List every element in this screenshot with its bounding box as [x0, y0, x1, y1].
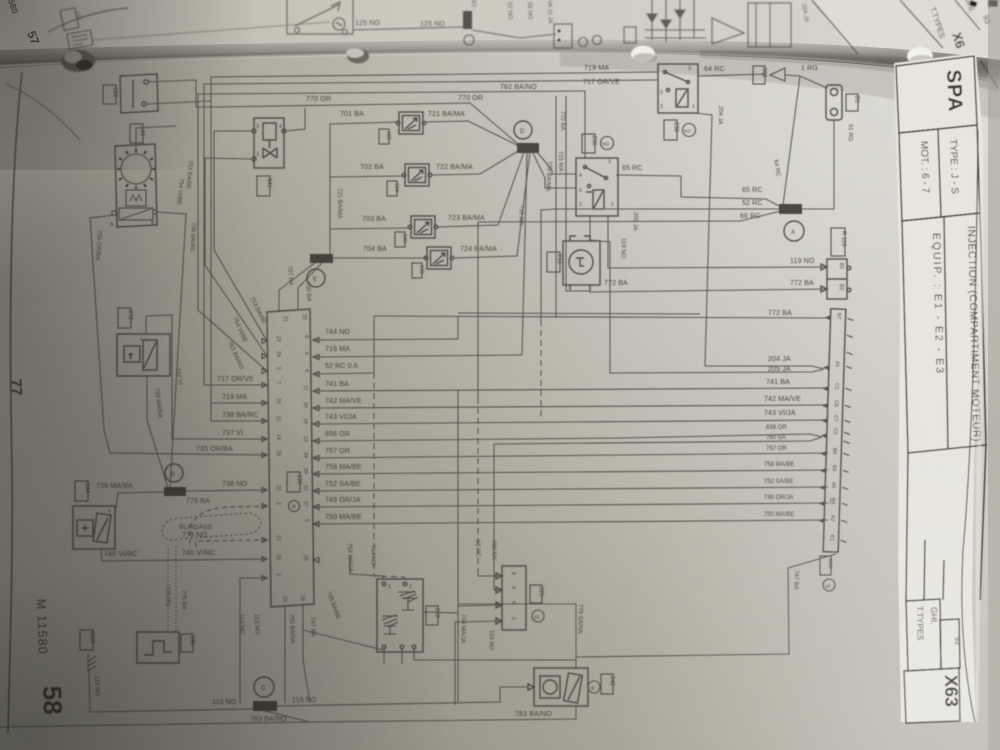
wire 753 BA/BE valve to ECU pin 23	[214, 131, 267, 341]
junction B	[164, 487, 186, 496]
circled letters (page 57)	[579, 38, 588, 47]
label 198	[412, 263, 422, 278]
wire 125 NO (page 57)	[353, 27, 463, 30]
bus 772 BA to connector pin B7	[374, 316, 828, 318]
wire 783 BA/NO from C	[265, 711, 310, 722]
label 302	[753, 66, 765, 84]
node A	[784, 221, 804, 241]
circle NO 238	[683, 124, 696, 137]
wire 114 NO	[240, 578, 267, 704]
diagram frame bottom border	[0, 722, 310, 727]
wire 737 VI sensor to ECU pin 14	[146, 315, 267, 439]
label 196	[395, 232, 405, 247]
binder hole 3	[631, 46, 655, 63]
wire 700 BA to pin 20	[298, 263, 322, 288]
shielded pair 775 BA / 776 NO	[190, 506, 267, 548]
wire 742 MA/VE	[314, 405, 828, 408]
binder hole 2	[347, 49, 369, 64]
label 1995	[820, 556, 831, 575]
wire 716 MA	[314, 355, 522, 357]
junction C	[253, 701, 277, 711]
circle 10	[823, 579, 835, 591]
wire 752 SA/BE	[314, 487, 828, 491]
X63 row	[904, 668, 960, 723]
wire 858 OR	[314, 434, 822, 441]
107 label (page 57)	[60, 8, 79, 31]
toothed rotor	[121, 154, 151, 184]
wire from 168 lower to bus	[146, 101, 211, 421]
wire 66 RC down to connector 225	[477, 398, 479, 568]
label 168	[103, 85, 116, 104]
wire module 222 bottom pins down	[384, 649, 414, 664]
ECU bottom pins	[285, 605, 303, 625]
relay 238	[658, 64, 698, 113]
module 222 ignition power stage	[377, 579, 423, 652]
relay 242	[528, 668, 588, 706]
wire 115 NO ground to junction C	[89, 672, 253, 712]
INJECTION/EQUIP row	[902, 213, 986, 453]
label 225	[530, 585, 542, 603]
label 183	[379, 129, 389, 144]
wire 770 OR top bus	[196, 103, 519, 145]
throttle potentiometer 149 body	[115, 144, 157, 227]
wire 772 BA sensor to connector B2	[590, 289, 828, 292]
wire to relay 236 top right	[566, 96, 590, 291]
wire 757 OR	[314, 453, 828, 458]
circle 10 at 225	[532, 610, 544, 622]
circle B 242	[588, 681, 600, 693]
label 149	[130, 124, 143, 143]
curl shadow right of centre	[560, 51, 1000, 120]
wire 749 OR/JA	[314, 503, 828, 507]
dashed vertical wire	[540, 320, 542, 420]
fuse (page 57)	[463, 11, 472, 29]
solenoid valve 341	[252, 118, 286, 168]
wire 760 SA	[494, 437, 822, 444]
GHI / T.TYPES / 93 row	[906, 599, 941, 671]
node C	[254, 677, 274, 697]
SPA cell	[896, 56, 977, 133]
ECU top pins 21 20	[279, 288, 298, 311]
wire 729 BA/MA D to relay 236	[533, 153, 576, 188]
wire 779 SA/NA module to relay 242	[414, 649, 576, 660]
wire 754 VI/BE valve to ECU pin 24	[205, 158, 267, 356]
wire 750 MA/BE	[314, 520, 828, 524]
label 236	[582, 134, 595, 153]
wire 744 NO	[314, 316, 458, 340]
label 242	[601, 674, 613, 694]
shadow on upper-left of top page	[0, 0, 420, 170]
wire 66 RC to junction A	[478, 211, 781, 398]
page edge line right of sidebar	[962, 130, 978, 722]
label 244	[75, 481, 88, 501]
connector 225	[496, 566, 526, 630]
transistor hatched blocks inside 222	[398, 591, 418, 610]
ECU connector 120	[267, 309, 314, 607]
label 216	[547, 252, 560, 272]
shield drain wires down to 146	[167, 548, 169, 632]
right page edge shading	[988, 0, 1000, 750]
knock sensor 244	[73, 506, 115, 549]
wire 739 MA/BA 244 to junction B	[115, 492, 164, 513]
wire 64 RC relay 238 to arrow	[698, 74, 766, 76]
wire 738 NO junction B to ECU pin 22	[186, 490, 267, 491]
module 146	[137, 632, 179, 663]
circle NO 236	[601, 137, 614, 150]
junction A	[779, 204, 802, 214]
wire pot top to bus	[136, 126, 176, 154]
switch 168	[120, 74, 158, 113]
wire relay 242 bottom 783 BA/NO	[310, 706, 576, 722]
label 194	[387, 181, 397, 196]
binder hole 4	[907, 47, 933, 65]
wire 734 MA/JA module 222 right	[423, 390, 458, 702]
wire 762 BA/NO	[198, 91, 585, 371]
injector return wires to junction D	[426, 121, 519, 146]
wire 64 RC down to junction A	[783, 76, 800, 205]
wire 204 JA relay 238 down to right connector	[694, 113, 824, 369]
wire 736 BA/RC from pot B to junction B	[157, 212, 186, 488]
wire 113 NO	[284, 625, 286, 703]
upper page strip across the top	[0, 0, 1000, 68]
wire 707 BA to pin 21	[279, 262, 316, 290]
label 146	[181, 634, 193, 652]
right ECU connector B7..E1	[817, 309, 854, 553]
TYPE/MOT row	[899, 125, 980, 221]
wire 52 RC to junction A	[541, 209, 779, 320]
earth m (page 57)	[464, 35, 474, 45]
wire 116 NO junction C to relay 242	[277, 687, 528, 706]
page 57 frame arc	[48, 8, 128, 32]
alternator (page 57)	[287, 0, 353, 35]
resistor with slash	[119, 208, 153, 220]
crease shadow between pages	[0, 40, 1000, 84]
sensor 272	[117, 334, 170, 376]
wire 755 BA/NA	[303, 630, 310, 703]
wire 735 OR/BA from pot A down to ECU pin 28	[90, 215, 267, 455]
label 238	[664, 120, 677, 140]
rectifier (page 57)	[645, 0, 744, 44]
wire 772 BA vertical at D	[555, 96, 557, 318]
label 341	[257, 176, 270, 196]
wire from 168 upper to bus	[148, 80, 196, 107]
wire 738 BA/RC	[211, 420, 267, 422]
wire 745 BA/BE ECU to module 222	[303, 624, 383, 650]
wire 738 MA/BA sensor to junction B	[147, 376, 168, 488]
TDC sensor 216	[563, 236, 600, 290]
wire 119 NO relay 236 to connector B1	[608, 216, 828, 268]
page curl arc top-left	[6, 84, 80, 140]
wire 715 MA D to relay 236	[537, 152, 576, 174]
junction E	[310, 254, 333, 263]
shield outline BLINDAGE	[162, 513, 261, 540]
injector 198	[424, 247, 454, 269]
pickup box	[126, 190, 146, 206]
wire 51 RG fuse to junction A	[801, 120, 834, 209]
upper page sidebar (tilted, right)	[812, 0, 1000, 62]
wire 717 OR/VE	[204, 80, 658, 385]
wire 65 RC relay 236 to junction A	[616, 175, 781, 207]
label 120	[287, 472, 300, 492]
upper page (page 57) line art	[60, 0, 809, 49]
wire 740 VI/RC 244 to ECU pin 15	[101, 549, 267, 561]
wire 719 MA	[211, 72, 658, 403]
wire 205 JA relay 236 down to right connector	[590, 216, 824, 373]
ECU left pin ticks	[262, 339, 267, 581]
ECU right pin ticks	[313, 338, 319, 563]
injector feed wires from E	[330, 122, 399, 254]
node D	[514, 121, 532, 139]
wire 744 NO down to module 222	[374, 373, 404, 580]
node B	[165, 464, 183, 482]
ground M18	[88, 654, 96, 672]
diagram frame left border	[8, 72, 22, 733]
off-page arrow 1 RG	[770, 68, 785, 81]
wire 743 VI/JA	[314, 420, 828, 424]
component (page 57 left)	[67, 30, 93, 49]
label 272	[118, 308, 131, 328]
connector R116 B1 B2	[821, 259, 851, 299]
label R116	[831, 228, 845, 256]
node E	[307, 269, 325, 287]
connector (page 57)	[554, 24, 572, 48]
wire 741 BA	[314, 388, 828, 391]
wire 52 RC 0.6	[314, 316, 374, 374]
label 151 (page 57)	[624, 27, 636, 43]
label 222	[426, 606, 438, 625]
injector 194	[402, 164, 432, 186]
box (page 57)	[748, 3, 791, 47]
circle R	[289, 501, 300, 512]
wire 716 MA D down	[522, 153, 527, 355]
binder hole 1	[61, 50, 95, 72]
label M18	[80, 630, 93, 650]
injector 183	[396, 112, 426, 134]
relay 236	[576, 158, 618, 216]
junction D	[517, 143, 539, 153]
wire 758 MA/BE	[314, 470, 828, 474]
wire valve to 770 OR	[286, 108, 305, 131]
wire 760 SA down to connector 225	[494, 444, 502, 590]
fuse B1	[826, 85, 842, 120]
wire 747 BA connector to relay 242	[576, 554, 836, 668]
wires connector 225 pins 6 and 2	[458, 605, 502, 606]
wire 754 MA/JA to module 222	[350, 556, 383, 580]
injector 196	[408, 216, 438, 238]
label B1	[846, 94, 858, 111]
empty row	[906, 453, 908, 601]
